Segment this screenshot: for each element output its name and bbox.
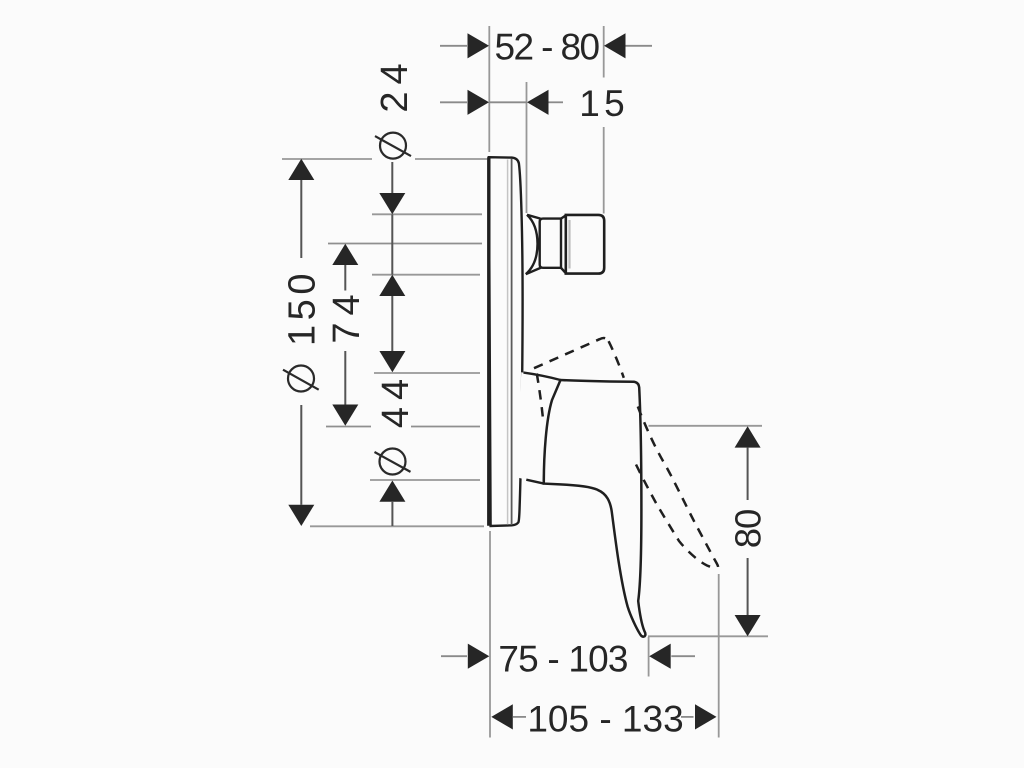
dimension 52-80: right tail [626,45,653,47]
dimension 75-103: left tail [441,655,467,657]
extension line: plate top (y=159) left part [282,158,372,160]
dimension 80: upper line [747,448,749,500]
dimension d24: top arrow (points down) [379,193,405,214]
dimension d150: upper line [300,180,302,258]
dimension 74: upper tail [344,265,346,291]
svg-text:105 - 133: 105 - 133 [527,698,683,739]
dashed handle: inner edge (emerges at lever edge, to tip) [636,465,715,569]
spout connector: block shading line [568,220,570,269]
dimension 15: left tail [440,101,467,103]
extension line: plate face x=489 top [488,26,490,152]
svg-text:150: 150 [282,269,324,346]
extension line: plate top (y=159) right part [415,158,487,160]
spout connector: cylinder body [540,219,561,268]
dimension 74: top arrow [332,244,358,265]
dimension 15: right tail [549,101,564,103]
extension line: 80-dim bottom y=636.3 [648,635,768,637]
dimension d24: diameter symbol [380,133,406,159]
dimension d44: top arrow (points down) [379,351,405,372]
dimension 80: top arrow [735,426,761,447]
handle rosette: top edge [524,373,561,380]
dimension d24: line above top arrow [391,162,393,194]
plate inner rim line (faint) [507,160,509,525]
dimension 15: left arrow [468,90,490,115]
spout connector: taper bottom edge [526,268,541,275]
dimension 105-133: left tail [513,716,526,718]
extension line: 80-dim top y=425.8 [649,425,763,427]
extension line: spout top y=214 [372,213,482,215]
dimension d44: bottom arrow (points up) [379,481,405,502]
extension line: handle rosette bottom y=480 [370,479,480,481]
dimension 15: right arrow [527,90,549,115]
extension line: handle axis y=426.5 right part [411,426,480,428]
dimension 74: lower line [344,351,346,405]
dimension 105-133: right tail [681,716,694,718]
dimension 80: bottom arrow [735,615,761,636]
extension line: handle rosette top y=373 [374,372,480,374]
dimension d150: bottom arrow [288,505,314,526]
svg-text:74: 74 [326,287,368,343]
extension line: plate bottom y=526 [310,525,484,527]
dimension 74: bottom arrow [332,405,358,426]
dashed handle: rosette edge on plate [537,374,543,422]
dimension d44: diameter symbol [380,449,406,475]
spout connector: step top diagonal [561,215,566,218]
dimension 105-133: left arrow (points left) [491,704,513,729]
svg-text:44: 44 [375,372,417,428]
extension line: dashed handle tip x=718.7 [718,574,720,738]
dimension d44: lower tail [391,502,393,526]
extension line: plate face x=490 bottom [489,531,491,738]
handle rosette: rear edge (behind lever) [544,380,561,482]
extension line: spout axis y=243.5 [328,243,482,245]
handle lever (solid, pointing down) [544,380,646,637]
spout connector: taper top edge [527,215,541,219]
svg-text:75 - 103: 75 - 103 [498,639,627,680]
dimension 52-80: left arrow [468,33,490,58]
handle rosette (base, side view) [518,372,561,483]
dashed handle (raised position): top edge [534,338,609,368]
extension line: spout shoulder x=526.5 [526,82,528,213]
extension line: spout end x=603.7 upper [603,26,605,78]
svg-text:80: 80 [728,510,769,549]
dimension 15: line between arrows [489,101,527,103]
dimension 52-80: left tail [440,45,467,47]
dimension d150: diameter symbol [288,366,314,392]
svg-text:1 5: 1 5 [579,83,624,124]
dimension 52-80: right arrow [604,33,626,58]
extension line: spout bottom y=274.7 [372,274,480,276]
spout connector: step bottom diagonal [561,268,566,274]
extension line: handle tip x=648.6 [648,637,650,677]
dimension d24: bottom arrow (points up) [379,275,405,296]
extension line: spout end x=603.7 lower [603,127,605,214]
svg-text:52 - 80: 52 - 80 [495,26,600,67]
dimension d150: top arrow [288,159,314,180]
svg-text:24: 24 [374,56,416,112]
dimension 80: lower line [747,558,749,615]
dimension d150: lower line [300,405,302,505]
spout connector: taper cone at plate [526,215,538,274]
dimension 75-103: left arrow [468,644,490,669]
dimension 105-133: right arrow (points right) [695,704,717,729]
spout connector: end block [566,215,604,274]
dimension 75-103: right arrow [649,644,671,669]
plate front face (thick edge) [487,157,490,526]
handle rosette: bottom edge [526,480,544,484]
wall plate (escutcheon, side view) [489,157,523,526]
dashed handle: outer edge (from peak, over lever corner, to tip) [609,341,624,378]
shared dim line between d24 and d44 [391,296,393,351]
plate inner rim line (dark) [511,159,513,526]
dimension 75-103: right tail [671,655,695,657]
dimension d24: line through spout [391,214,393,274]
extension line: handle axis y=426.5 left part [326,426,371,428]
